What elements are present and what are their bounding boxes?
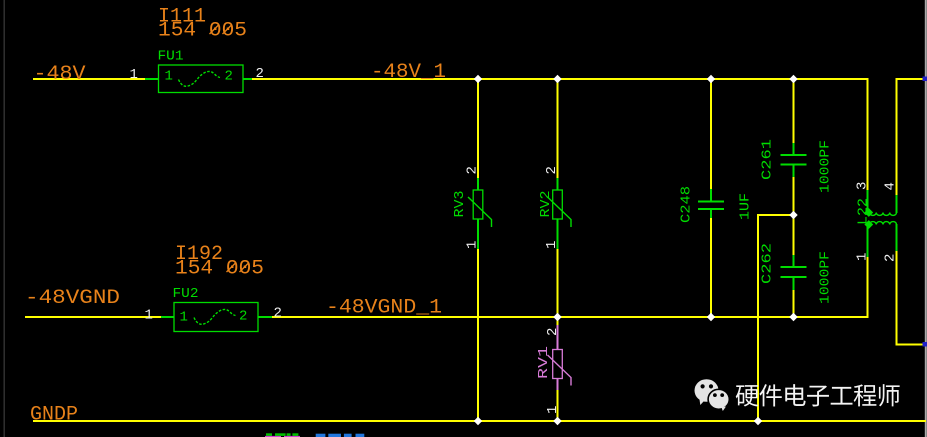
svg-text:4: 4	[883, 182, 899, 190]
svg-text:2: 2	[544, 166, 560, 174]
svg-text:1000PF: 1000PF	[818, 140, 834, 193]
svg-text:L22: L22	[856, 198, 872, 225]
svg-text:C248: C248	[679, 186, 695, 223]
wire RV3 column upper	[477, 78, 479, 179]
svg-text:GNDP: GNDP	[30, 404, 78, 427]
svg-text:FU2: FU2	[173, 286, 199, 302]
svg-text:-48V: -48V	[34, 63, 86, 86]
cut-off green text fragment bottom edge	[266, 433, 272, 436]
watermark text 硬件电子工程师	[736, 384, 900, 406]
svg-text:154 005: 154 005	[158, 20, 247, 43]
varistor RV1	[548, 325, 572, 390]
svg-text:1000PF: 1000PF	[818, 251, 834, 304]
wire L22 pin1 drop to -48VGND_1 rail	[867, 256, 869, 318]
wire -48V_1 right vertical drop to L22 pin 3	[867, 78, 869, 191]
off-page connector blue mark top right	[923, 77, 927, 82]
junction node RV3 bottom	[474, 417, 482, 425]
junction node RV1 bottom	[553, 417, 561, 425]
svg-text:-48V_1: -48V_1	[371, 61, 446, 84]
svg-text:-48VGND: -48VGND	[25, 287, 120, 310]
svg-text:2: 2	[256, 66, 264, 82]
svg-text:2: 2	[883, 254, 899, 262]
junction node C248 top	[707, 75, 715, 83]
svg-text:FU1: FU1	[158, 49, 184, 65]
wire net -48VGND_1 mid rail	[272, 316, 869, 318]
wire L22 pin4 top stub to right edge	[897, 79, 926, 196]
wire C261 column upper	[793, 78, 795, 144]
svg-text:2: 2	[545, 328, 561, 336]
right window border	[925, 0, 927, 437]
junction node tap bottom	[754, 417, 762, 425]
junction node C248 bottom	[707, 313, 715, 321]
wire node between C261/C262 to GNDP tap horizontal	[757, 214, 794, 216]
svg-text:1: 1	[145, 308, 153, 324]
wire RV3 column lower (crosses -48VGND_1, no junction)	[477, 248, 479, 422]
svg-text:-48VGND_1: -48VGND_1	[326, 297, 442, 320]
svg-text:RV3: RV3	[452, 191, 468, 218]
wire RV2 column lower	[557, 248, 559, 318]
svg-text:C261: C261	[760, 139, 776, 180]
svg-text:2: 2	[225, 69, 233, 85]
slashes on zeros of 005	[210, 25, 220, 35]
wire net GNDP bottom rail	[33, 420, 926, 422]
off-page connector blue mark bottom right	[923, 342, 927, 347]
svg-text:1UF: 1UF	[738, 193, 754, 220]
junction node RV3 top	[474, 75, 482, 83]
wire net -48V (left of FU1)	[33, 78, 145, 80]
svg-text:C262: C262	[760, 243, 776, 284]
capacitor C248	[698, 189, 724, 218]
svg-text:RV1: RV1	[536, 346, 552, 379]
wire RV1 column stubs	[557, 317, 559, 326]
wire C248 column upper	[710, 78, 712, 190]
svg-text:1: 1	[130, 67, 138, 83]
capacitor C262	[781, 255, 807, 290]
capacitor C261	[781, 143, 807, 177]
wire L22 pin2 drop to right edge	[897, 250, 926, 345]
fuse FU2	[161, 303, 272, 332]
wire net -48VGND (left of FU2)	[25, 316, 161, 318]
wire C248 column lower	[710, 217, 712, 318]
svg-text:2: 2	[239, 309, 247, 325]
junction node C261/C262 mid	[789, 211, 797, 219]
svg-text:2: 2	[274, 306, 282, 322]
wire C262 column lower	[793, 289, 795, 318]
svg-text:3: 3	[855, 182, 871, 190]
junction node C261 top	[789, 75, 797, 83]
fuse FU1	[145, 65, 252, 93]
cut-off magenta underline fragment bottom edge	[265, 436, 281, 437]
left window border	[3, 0, 5, 437]
wire net -48V_1 top rail	[252, 78, 869, 80]
wire RV2 column upper	[557, 78, 559, 179]
svg-text:1: 1	[544, 241, 560, 249]
svg-text:1: 1	[180, 310, 188, 326]
cut-off blue text fragment bottom edge	[316, 434, 326, 437]
svg-text:1: 1	[545, 406, 561, 414]
junction node C262 bottom	[789, 313, 797, 321]
svg-text:2: 2	[465, 166, 481, 174]
svg-text:1: 1	[165, 69, 173, 85]
svg-text:1: 1	[855, 253, 871, 261]
svg-text:1: 1	[465, 241, 481, 249]
junction node RV2 top	[553, 75, 561, 83]
inductor L22 common-mode choke	[864, 190, 896, 257]
wire GNDP tap vertical x=758	[757, 214, 759, 422]
varistor RV2	[548, 178, 572, 249]
svg-text:154 005: 154 005	[175, 258, 264, 281]
watermark WeChat logo	[695, 379, 730, 411]
junction node RV2/RV1 mid	[553, 313, 561, 321]
varistor RV3	[468, 178, 492, 249]
wire C261-C262 mid column through node	[793, 176, 795, 256]
svg-text:RV2: RV2	[538, 191, 554, 218]
